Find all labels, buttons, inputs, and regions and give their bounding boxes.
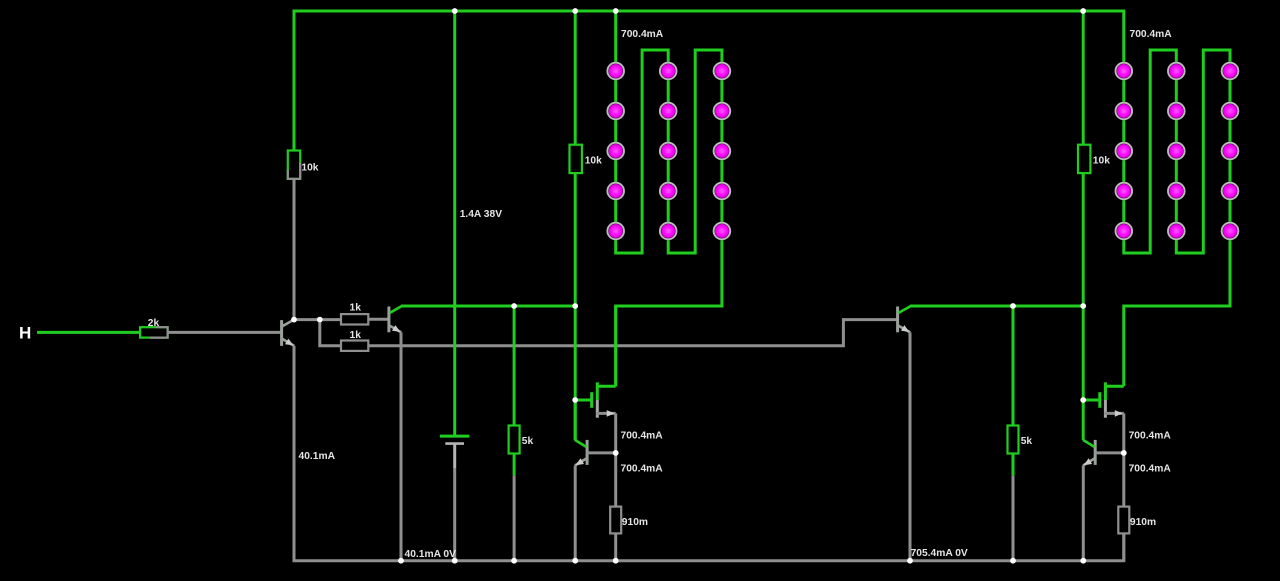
resistor R7 910m — [610, 507, 621, 534]
node right 5k tap junction — [1010, 303, 1016, 309]
svg-text:910m: 910m — [622, 517, 648, 528]
node R8 ground junction — [1010, 558, 1016, 564]
LED D14 — [713, 182, 732, 201]
node sense junction right — [1121, 450, 1127, 456]
LED D12 — [713, 102, 732, 121]
label M2 source current 700.4mA — [1129, 430, 1172, 441]
LED D15 — [713, 222, 732, 241]
wire sense node to R10 — [1122, 453, 1125, 507]
resistor R10 910m — [1118, 507, 1129, 534]
wire V+ to R5 — [574, 11, 577, 145]
label R2 value 2k — [148, 318, 160, 329]
wire LED string right serpentine — [1083, 11, 1230, 386]
resistor R4 1k — [341, 341, 368, 351]
LED D25 — [1167, 222, 1186, 241]
node R6 ground junction — [511, 558, 517, 564]
transistor Q5 — [1083, 440, 1095, 466]
wire battery to ground — [453, 444, 456, 561]
LED D28 — [1221, 142, 1240, 161]
wire R1 to Q1 collector — [293, 179, 296, 320]
label R6 value 5k — [522, 436, 534, 447]
wire R8 lead — [1012, 454, 1015, 476]
LED D1 — [606, 62, 625, 81]
LED D8 — [659, 142, 678, 161]
svg-text:H: H — [19, 324, 31, 343]
svg-text:705.4mA 0V: 705.4mA 0V — [911, 548, 968, 559]
resistor R3 1k — [341, 314, 368, 324]
wire rail to R8 — [1012, 306, 1015, 426]
wire LED string left serpentine — [616, 11, 722, 386]
node battery ground junction — [452, 558, 458, 564]
LED D17 — [1115, 102, 1134, 121]
resistor R2 2k — [140, 327, 168, 337]
node Q5 emitter ground junction — [1080, 558, 1086, 564]
node sense junction left — [613, 450, 619, 456]
LED D18 — [1115, 142, 1134, 161]
node Q2 emitter ground junction — [398, 558, 404, 564]
svg-text:1k: 1k — [350, 330, 362, 341]
transistor Q2 — [389, 306, 402, 332]
LED D21 — [1167, 62, 1186, 81]
label R10 value 910m — [1130, 517, 1156, 528]
wire top supply rail — [293, 10, 1084, 13]
wire Q1 emitter to ground — [293, 346, 296, 561]
LED D23 — [1167, 142, 1186, 161]
transistor M2 nmos — [1100, 382, 1124, 417]
label R7 value 910m — [622, 517, 648, 528]
node right branch top junction — [1080, 8, 1086, 14]
LED D10 — [659, 222, 678, 241]
node Q4 emitter ground junction — [572, 558, 578, 564]
resistor R9 10k — [1078, 145, 1090, 173]
label R4 value 1k — [350, 330, 362, 341]
wire R3 to Q2 base — [368, 318, 389, 321]
node Q1 collector junction — [291, 317, 297, 323]
LED D2 — [606, 102, 625, 121]
LED D16 — [1115, 62, 1134, 81]
node gate rail junction — [572, 303, 578, 309]
label LED string right current 700.4mA — [1130, 29, 1173, 40]
svg-text:700.4mA: 700.4mA — [621, 463, 664, 474]
svg-text:1.4A 38V: 1.4A 38V — [460, 209, 503, 220]
wire V+ to battery — [453, 11, 456, 436]
svg-text:10k: 10k — [585, 156, 602, 167]
wire Q2 emitter to ground — [400, 332, 403, 560]
node Q3 emitter ground junction — [907, 558, 913, 564]
svg-text:40.1mA 0V: 40.1mA 0V — [405, 549, 457, 560]
wire R4 to Q3 base — [368, 320, 897, 346]
node M2 gate junction — [1080, 397, 1086, 403]
wire Q4 base to sense node — [587, 451, 616, 454]
svg-text:910m: 910m — [1130, 517, 1156, 528]
wire V+ to R9 — [1082, 11, 1085, 145]
node resistor split junction — [317, 317, 323, 323]
wire Q3 emitter to ground — [909, 332, 912, 560]
wire node down to R4 — [320, 320, 341, 346]
svg-text:700.4mA: 700.4mA — [621, 29, 664, 40]
wire Q5 base to sense node — [1095, 451, 1124, 454]
svg-text:1k: 1k — [350, 302, 362, 313]
wire M2 source to sense node — [1122, 413, 1125, 453]
transistor Q3 — [898, 306, 911, 332]
label R1 value 10k — [301, 162, 318, 173]
wire rail to R6 — [513, 306, 516, 426]
LED D26 — [1221, 62, 1240, 81]
svg-text:700.4mA: 700.4mA — [1130, 29, 1173, 40]
wire Q4 emitter to ground — [574, 466, 577, 561]
svg-text:2k: 2k — [148, 318, 160, 329]
LED D4 — [606, 182, 625, 201]
svg-text:5k: 5k — [1021, 436, 1033, 447]
LED D19 — [1115, 182, 1134, 201]
wire Q2 collector rail — [401, 305, 575, 308]
node battery top junction — [452, 8, 458, 14]
wire R10 to ground — [1122, 533, 1125, 560]
node M1 gate junction — [572, 397, 578, 403]
label R8 value 5k — [1021, 436, 1033, 447]
wire Q5 emitter to ground — [1082, 466, 1085, 561]
LED D20 — [1115, 222, 1134, 241]
svg-text:700.4mA: 700.4mA — [1129, 430, 1172, 441]
node R7 ground junction — [613, 558, 619, 564]
label R9 value 10k — [1093, 156, 1110, 167]
wire R2 to Q1 base — [168, 331, 282, 334]
svg-text:700.4mA: 700.4mA — [621, 430, 664, 441]
label R5 value 10k — [585, 156, 602, 167]
LED D27 — [1221, 102, 1240, 121]
LED D11 — [713, 62, 732, 81]
label ground rail readout 705.4mA 0V — [911, 548, 968, 559]
label ground rail readout 40.1mA 0V — [405, 549, 457, 560]
LED D22 — [1167, 102, 1186, 121]
LED D24 — [1167, 182, 1186, 201]
resistor R5 10k — [570, 145, 582, 173]
wire H to R2 — [37, 331, 140, 334]
LED D3 — [606, 142, 625, 161]
wire Q1 collector to resistor node — [294, 318, 320, 321]
transistor Q1 — [282, 319, 295, 346]
node LED string left top junction — [613, 8, 619, 14]
svg-text:10k: 10k — [1093, 156, 1110, 167]
wire R8 to ground — [1012, 476, 1015, 561]
wire sense node to R7 — [614, 453, 617, 507]
node right gate rail junction — [1080, 303, 1086, 309]
label R7 current 700.4mA — [621, 463, 664, 474]
svg-text:40.1mA: 40.1mA — [299, 451, 336, 462]
LED D9 — [659, 182, 678, 201]
LED D7 — [659, 102, 678, 121]
wire node to R3 — [320, 318, 341, 321]
label R3 value 1k — [350, 302, 362, 313]
transistor Q4 — [575, 440, 587, 466]
svg-text:5k: 5k — [522, 436, 534, 447]
wire gate node to M1 gate — [575, 399, 590, 402]
wire V+ to R1 — [293, 10, 296, 151]
wire M1 drain — [614, 306, 617, 386]
wire R9 to gate node — [1082, 173, 1085, 440]
label battery readout 1.4A 38V — [460, 209, 503, 220]
wire gate node to M2 gate — [1083, 399, 1098, 402]
LED D30 — [1221, 222, 1240, 241]
LED D6 — [659, 62, 678, 81]
wire R5 to gate node — [574, 173, 577, 440]
resistor R8 5k — [1008, 426, 1019, 454]
label LED string left current 700.4mA — [621, 29, 664, 40]
battery V1 — [440, 436, 470, 444]
wire gate node to Q4 collector — [574, 400, 577, 440]
transistor M1 nmos — [592, 382, 616, 417]
node 5k tap junction — [511, 303, 517, 309]
resistor R6 5k — [509, 426, 520, 454]
svg-text:10k: 10k — [301, 162, 318, 173]
resistor R1 10k — [288, 151, 300, 179]
node H input label — [19, 324, 31, 343]
wire M1 source to sense node — [614, 413, 617, 453]
wire R6 to ground — [513, 476, 516, 561]
wire ground rail — [294, 346, 1124, 561]
label R10 current 700.4mA — [1129, 463, 1172, 474]
label Q1 emitter current 40.1mA — [299, 451, 336, 462]
label M1 source current 700.4mA — [621, 430, 664, 441]
LED D5 — [606, 222, 625, 241]
wire Q3 collector rail — [910, 305, 1083, 308]
wire R7 to ground — [614, 533, 617, 560]
node main branch top junction — [572, 8, 578, 14]
svg-text:700.4mA: 700.4mA — [1129, 463, 1172, 474]
LED D13 — [713, 142, 732, 161]
wire R6 lead — [513, 454, 516, 476]
LED D29 — [1221, 182, 1240, 201]
